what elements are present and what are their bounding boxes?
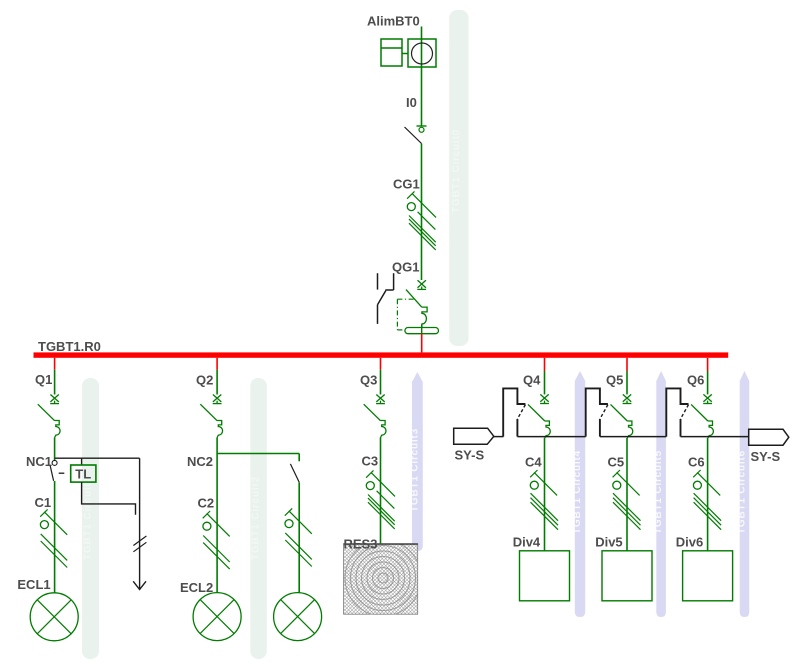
wire [216, 438, 218, 593]
switch-fuse Q5 [586, 388, 633, 438]
dashed link [59, 472, 65, 474]
wire [600, 436, 666, 438]
contactor C6 [693, 470, 721, 530]
svg-text:TGBT1 Circuit6: TGBT1 Circuit6 [737, 450, 748, 534]
wire [55, 457, 140, 459]
svg-text:TGBT1 Circuit1: TGBT1 Circuit1 [83, 476, 94, 560]
terminal SY-S left [454, 428, 494, 444]
wire [421, 144, 423, 281]
wire [380, 438, 382, 544]
svg-text:ECL1: ECL1 [17, 577, 50, 592]
svg-text:C4: C4 [525, 455, 542, 470]
node NC2 wire [217, 453, 299, 455]
wire [517, 436, 585, 438]
busbar TGBT1.R0 [34, 352, 729, 357]
svg-text:TGBT1.R0: TGBT1.R0 [38, 339, 101, 354]
wire [681, 436, 749, 438]
svg-text:SY-S: SY-S [455, 448, 485, 463]
wire [54, 481, 56, 593]
contactor C5 [613, 470, 641, 530]
svg-text:Q1: Q1 [35, 372, 52, 387]
svg-text:ECL2: ECL2 [180, 580, 213, 595]
wire [544, 358, 546, 371]
wire [82, 482, 136, 515]
wire [626, 438, 628, 551]
svg-text:TGBT1 Circuit4: TGBT1 Circuit4 [572, 450, 583, 534]
lamp ECL2a [193, 593, 241, 641]
svg-text:SY-S: SY-S [751, 449, 781, 464]
terminal SY-S right [749, 429, 789, 445]
svg-text:QG1: QG1 [392, 260, 419, 275]
wire [626, 371, 628, 394]
wire [216, 358, 218, 370]
relay TL [71, 465, 96, 482]
wire [421, 27, 423, 127]
load Div4 [520, 551, 570, 601]
wire [298, 482, 300, 592]
svg-text:Div4: Div4 [513, 535, 541, 550]
watermark band circuit5 [656, 371, 666, 617]
contactor C4 [530, 470, 558, 530]
svg-text:TGBT1 Circuit0: TGBT1 Circuit0 [451, 129, 462, 213]
load Div5 [602, 551, 652, 601]
wire [380, 358, 382, 370]
circuit-breaker Q2 [200, 395, 222, 438]
contact NC2 branch [290, 464, 299, 482]
wire [54, 358, 56, 370]
watermark band circuit4 [575, 371, 585, 617]
svg-text:C5: C5 [608, 455, 625, 470]
wire [81, 458, 83, 465]
contactor C1 [40, 509, 67, 567]
svg-text:Q3: Q3 [360, 373, 377, 388]
watermark band circuit6 [740, 371, 750, 617]
arrow head [133, 581, 146, 589]
contactor C3 [366, 470, 395, 529]
break marks [133, 536, 146, 546]
wire [707, 371, 709, 394]
watermark band circuit3 [412, 372, 423, 551]
circuit-breaker Q1 [38, 395, 60, 438]
svg-text:CG1: CG1 [393, 177, 420, 192]
wire [707, 438, 709, 551]
watermark band circuit2 [250, 378, 266, 659]
svg-text:NC1: NC1 [26, 454, 52, 469]
wire [544, 371, 546, 394]
svg-text:Q5: Q5 [606, 373, 623, 388]
wire [707, 358, 709, 371]
load Div6 [683, 551, 733, 601]
svg-text:Div6: Div6 [676, 535, 703, 550]
svg-text:RES3: RES3 [344, 537, 378, 552]
svg-text:Q6: Q6 [687, 373, 704, 388]
svg-text:TL: TL [75, 467, 91, 482]
svg-text:C1: C1 [35, 495, 52, 510]
svg-text:C3: C3 [362, 454, 379, 469]
circuit-breaker QG1 [378, 273, 439, 334]
wire [54, 370, 56, 395]
switch I0 [405, 126, 427, 144]
lamp ECL2b [274, 593, 322, 641]
svg-text:TGBT1 Circuit2: TGBT1 Circuit2 [251, 476, 262, 560]
contact NC1 [50, 460, 57, 481]
svg-text:C6: C6 [688, 455, 705, 470]
watermark band circuit1 [82, 378, 99, 659]
wire [626, 358, 628, 371]
heater RES3 [344, 540, 421, 616]
contactor C2 [203, 511, 230, 569]
svg-text:Q2: Q2 [196, 373, 213, 388]
svg-text:I0: I0 [406, 95, 417, 110]
svg-text:Div5: Div5 [595, 535, 622, 550]
svg-text:C2: C2 [198, 496, 215, 511]
circuit-breaker Q3 [364, 395, 386, 438]
svg-text:NC2: NC2 [187, 454, 213, 469]
svg-text:TGBT1 Circuit3: TGBT1 Circuit3 [409, 428, 420, 512]
wire [54, 438, 56, 461]
watermark band circuit0 [449, 10, 468, 346]
wire [216, 370, 218, 395]
switch-fuse Q6 [666, 388, 713, 438]
switch-fuse Q4 [503, 388, 550, 438]
contactor C2 branch [285, 508, 312, 566]
svg-text:AlimBT0: AlimBT0 [367, 14, 420, 29]
source transformer AlimBT0 [381, 39, 436, 67]
wire [421, 334, 423, 353]
wire to remote [139, 458, 141, 589]
svg-text:TGBT1 Circuit5: TGBT1 Circuit5 [653, 450, 664, 534]
measurement switch CG1 [407, 191, 436, 250]
lamp ECL1 [30, 593, 78, 641]
wire [380, 370, 382, 395]
wire [298, 454, 300, 462]
wire [494, 436, 504, 438]
wire [544, 438, 546, 551]
svg-text:Q4: Q4 [523, 373, 541, 388]
